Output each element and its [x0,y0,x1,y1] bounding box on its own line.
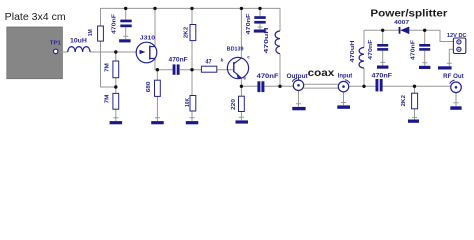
svg-text:470nF: 470nF [257,74,279,80]
svg-text:680: 680 [146,81,152,92]
svg-text:4007: 4007 [394,20,409,26]
svg-text:470nF: 470nF [372,74,393,80]
svg-text:47: 47 [205,59,212,65]
svg-text:470nF: 470nF [246,14,252,35]
svg-text:BD139: BD139 [227,46,244,52]
svg-text:1M: 1M [88,29,94,36]
svg-text:470uH: 470uH [350,40,356,63]
svg-text:12V DC: 12V DC [447,33,467,39]
svg-text:470nF: 470nF [112,14,118,34]
svg-text:coax: coax [308,67,335,79]
svg-text:Power/splitter: Power/splitter [370,9,447,20]
svg-text:2K2: 2K2 [183,26,189,38]
svg-text:Input: Input [338,74,353,80]
svg-text:470nF: 470nF [411,40,417,60]
svg-text:2K2: 2K2 [401,95,407,107]
svg-text:470nF: 470nF [368,40,374,60]
svg-text:220: 220 [231,99,237,110]
svg-text:Output: Output [287,74,308,80]
svg-text:10uH: 10uH [70,38,87,44]
svg-text:470nF: 470nF [169,57,189,63]
svg-text:7M: 7M [105,63,111,72]
svg-text:J310: J310 [140,35,155,41]
svg-text:b: b [221,57,224,62]
svg-text:TP1: TP1 [50,41,61,47]
svg-text:Plate 3x4 cm: Plate 3x4 cm [5,12,66,23]
svg-text:7M: 7M [105,95,111,104]
svg-text:RF Out: RF Out [443,74,464,80]
svg-text:470uH: 470uH [264,27,270,54]
svg-text:10K: 10K [185,98,191,107]
